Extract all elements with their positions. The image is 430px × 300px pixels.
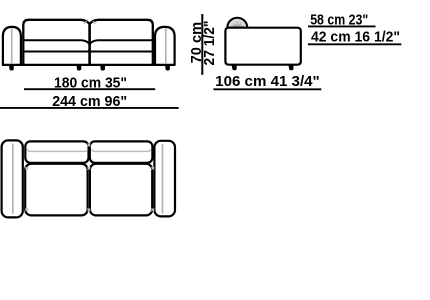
svg-text:42 cm 16 1/2": 42 cm 16 1/2" (311, 29, 400, 46)
svg-text:27 1/2": 27 1/2" (201, 21, 218, 66)
svg-text:180 cm 35": 180 cm 35" (54, 74, 127, 91)
svg-text:244 cm 96": 244 cm 96" (52, 93, 127, 110)
svg-text:106 cm 41 3/4": 106 cm 41 3/4" (215, 73, 320, 90)
